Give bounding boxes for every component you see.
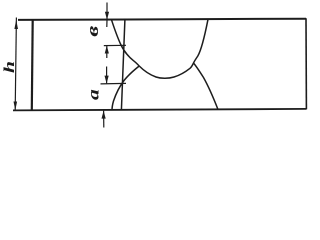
svg-text:h: h — [1, 61, 18, 73]
svg-text:в: в — [83, 25, 102, 37]
svg-text:а: а — [85, 89, 102, 100]
